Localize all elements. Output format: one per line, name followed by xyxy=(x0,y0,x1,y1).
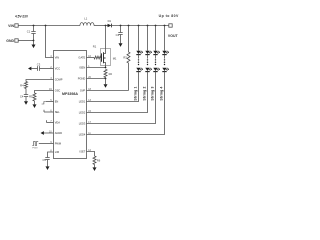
inductor L1 xyxy=(80,17,94,26)
svg-text:R5: R5 xyxy=(29,95,33,99)
svg-text:C4: C4 xyxy=(20,95,24,99)
svg-text:LED1: LED1 xyxy=(79,100,86,104)
svg-text:OSC: OSC xyxy=(55,89,61,93)
wire VIN rail xyxy=(18,25,80,27)
pin label EN xyxy=(50,100,58,104)
string 1 label xyxy=(134,86,138,100)
LED string 1 upper LED xyxy=(136,51,143,59)
LED string 2 lower LED xyxy=(145,68,152,72)
wire GND to C1 bottom xyxy=(18,40,34,42)
MOSFET M1 xyxy=(100,49,117,68)
ground at C3 (left) xyxy=(28,67,31,71)
wire string 4 from rail xyxy=(164,26,166,51)
svg-text:OVP: OVP xyxy=(80,89,86,93)
resistor R6 xyxy=(93,156,101,165)
svg-text:MP3398A: MP3398A xyxy=(62,92,78,96)
svg-text:String 3: String 3 xyxy=(151,86,155,100)
ground at AGND (left) xyxy=(41,131,44,135)
svg-text:String 2: String 2 xyxy=(143,86,147,100)
terminal VOUT xyxy=(168,24,179,38)
resistor R1 xyxy=(93,45,101,59)
svg-text:LED2: LED2 xyxy=(79,111,86,115)
svg-text:PGND: PGND xyxy=(78,77,86,81)
resistor R3 xyxy=(123,26,130,91)
pin label SEL xyxy=(50,110,60,114)
LED string 2 dotted continuation xyxy=(147,59,148,65)
svg-text:ISEN: ISEN xyxy=(79,66,85,70)
resistor R2 xyxy=(104,69,113,78)
wire AGND stub xyxy=(44,132,54,134)
svg-text:M1: M1 xyxy=(113,56,117,60)
svg-text:LIM: LIM xyxy=(55,150,59,154)
wire ISEN stub xyxy=(87,67,107,69)
pin label VCC xyxy=(50,67,60,71)
svg-text:VCC: VCC xyxy=(55,67,61,71)
LED string 3 upper LED xyxy=(153,51,160,59)
LED string 1 dotted continuation xyxy=(138,59,139,65)
pin label LED1 xyxy=(79,100,92,104)
LED string 3 dotted continuation xyxy=(155,59,156,65)
svg-text:EN: EN xyxy=(55,100,59,104)
wire PWM stub xyxy=(39,143,54,145)
wire COMP xyxy=(26,80,54,82)
wire OSC xyxy=(35,91,54,94)
LED string 1 lower LED xyxy=(136,68,143,72)
svg-text:VIN: VIN xyxy=(8,24,14,28)
ground below GND line xyxy=(32,41,36,49)
capacitor C5 xyxy=(42,158,49,167)
wire ISET xyxy=(87,152,95,157)
svg-text:D1: D1 xyxy=(108,19,112,23)
pin label LED3 xyxy=(79,122,92,126)
svg-text:AGND: AGND xyxy=(55,131,63,135)
wire string 3 from rail xyxy=(155,26,157,51)
svg-text:VIN: VIN xyxy=(55,56,59,60)
svg-text:4.5V-23V: 4.5V-23V xyxy=(15,14,29,18)
svg-text:L1: L1 xyxy=(84,17,87,21)
svg-text:String 1: String 1 xyxy=(134,86,138,100)
resistor R4 xyxy=(20,82,27,89)
wire D1 cathode to VOUT terminal xyxy=(112,25,170,27)
node string 2 top junction xyxy=(147,25,149,27)
pin label ISEN xyxy=(79,66,90,70)
pin label VIN xyxy=(50,56,59,60)
PWM signal glyph xyxy=(32,141,38,149)
svg-text:R2: R2 xyxy=(109,72,113,76)
node SW junction xyxy=(105,25,107,27)
wire VDA stub xyxy=(47,120,54,122)
svg-text:SEL: SEL xyxy=(55,110,60,114)
LED string 4 dotted continuation xyxy=(164,59,165,65)
wire string 2 from rail xyxy=(147,26,149,51)
node string 1 top junction xyxy=(138,25,140,27)
ground below C2 xyxy=(119,43,123,47)
svg-text:GATE: GATE xyxy=(78,56,85,60)
pin label OVP xyxy=(80,89,92,93)
wire PGND stub xyxy=(87,78,107,80)
svg-text:PWM: PWM xyxy=(55,142,61,146)
terminal GND xyxy=(6,39,18,43)
wire string 3 to LED3 pin xyxy=(87,72,156,124)
IC U1 MP3398A xyxy=(54,51,87,159)
pin label LED4 xyxy=(79,133,92,137)
node VIN-tap junction xyxy=(45,25,47,27)
pin label PGND xyxy=(78,77,92,81)
node string 4 top junction xyxy=(164,25,166,27)
svg-text:ISET: ISET xyxy=(80,150,86,154)
diode D1 xyxy=(108,19,112,28)
capacitor C3 xyxy=(31,63,53,71)
svg-text:PWM: PWM xyxy=(32,148,38,150)
wire R3 to OVP pin xyxy=(87,90,129,92)
node C1 top junction xyxy=(33,25,35,27)
svg-text:VOUT: VOUT xyxy=(168,34,179,38)
ground below C4 xyxy=(24,101,28,105)
svg-text:LED3: LED3 xyxy=(79,122,86,126)
svg-text:String 4: String 4 xyxy=(160,86,164,100)
wire string 2 to LED2 pin xyxy=(87,72,148,113)
LED string 4 upper LED xyxy=(162,51,169,59)
resistor R5 xyxy=(29,93,36,101)
node R3 junction xyxy=(128,25,130,27)
pin label GATE xyxy=(78,56,91,60)
pin label LED2 xyxy=(79,111,92,115)
svg-text:GND: GND xyxy=(6,39,14,43)
pin label ISET xyxy=(80,150,92,154)
wire drain to SW node xyxy=(105,26,107,49)
LED string 4 lower LED xyxy=(162,68,169,72)
output voltage label xyxy=(159,14,179,18)
wire VIN tap to IC VIN pin xyxy=(46,26,54,58)
pin label VDA xyxy=(50,121,60,125)
string 2 label xyxy=(143,86,147,100)
ground below R5 xyxy=(33,101,37,108)
pin label COMP xyxy=(50,78,62,82)
svg-text:R4: R4 xyxy=(20,83,24,87)
wire string 1 from rail xyxy=(138,26,140,51)
ground below C5 xyxy=(46,166,50,170)
wire string 1 to LED1 pin xyxy=(87,72,139,102)
svg-text:C2: C2 xyxy=(116,33,120,37)
node string 3 top junction xyxy=(155,25,157,27)
ground below R2 xyxy=(104,79,108,88)
string 3 label xyxy=(151,86,155,100)
wire L1 to SW node xyxy=(94,25,108,27)
svg-text:C5: C5 xyxy=(42,158,46,162)
capacitor C1 xyxy=(27,26,36,41)
svg-text:COMP: COMP xyxy=(55,78,63,82)
wire GATE stub xyxy=(87,57,95,59)
svg-text:R3: R3 xyxy=(123,56,127,60)
svg-text:R1: R1 xyxy=(93,45,97,49)
pin label OSC xyxy=(49,89,60,93)
pin label LIM xyxy=(50,150,59,154)
EN signal glyph xyxy=(42,102,46,105)
svg-text:VDA: VDA xyxy=(55,121,61,125)
input voltage range label xyxy=(15,14,29,18)
svg-text:LED4: LED4 xyxy=(79,133,86,137)
string 4 label xyxy=(160,86,164,100)
terminal VIN xyxy=(8,24,18,28)
svg-text:C3: C3 xyxy=(37,63,41,67)
wire EN stub xyxy=(46,101,54,103)
svg-text:C1: C1 xyxy=(27,29,31,33)
wire string 4 to LED4 pin xyxy=(87,72,165,135)
wire LIM xyxy=(48,152,54,158)
capacitor C2 xyxy=(116,26,123,44)
LED string 3 lower LED xyxy=(153,68,160,72)
pin label PWM xyxy=(50,142,61,146)
wire SEL stub xyxy=(44,110,54,112)
svg-text:Up to 80V: Up to 80V xyxy=(159,14,179,18)
LED string 2 upper LED xyxy=(145,51,152,59)
svg-text:R6: R6 xyxy=(97,159,101,163)
node C2 junction xyxy=(120,25,122,27)
ground below R6 xyxy=(93,165,97,172)
pin label AGND xyxy=(49,131,62,135)
capacitor C4 xyxy=(20,89,28,102)
